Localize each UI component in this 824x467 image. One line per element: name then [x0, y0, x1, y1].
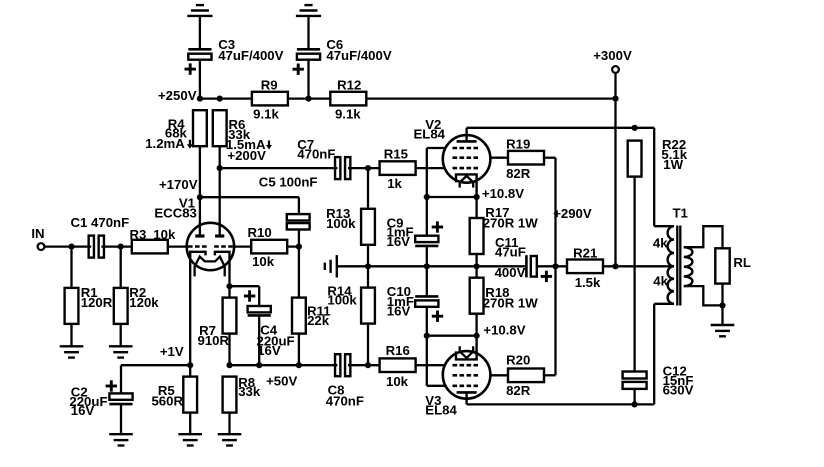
wire node to ground: [721, 305, 723, 325]
label C8: [326, 383, 364, 409]
wire 50V line: [230, 364, 338, 366]
label V2: [413, 117, 445, 141]
svg-text:1W: 1W: [663, 157, 683, 172]
wire R4 to V1 left anode: [199, 146, 201, 235]
svg-text:120k: 120k: [129, 295, 159, 310]
V3 g3 wire: [427, 336, 446, 386]
svg-text:910R: 910R: [198, 333, 230, 348]
wire C8 to R16: [348, 364, 380, 366]
node R10/R11/C5: [296, 244, 302, 250]
node V3 g3/C10: [424, 333, 430, 339]
V3 g1 dashes: [453, 364, 479, 367]
svg-text:R20: R20: [506, 352, 530, 367]
wire R20 to +290V line: [544, 374, 556, 376]
label R1: [81, 285, 113, 310]
wire midline to C10: [426, 266, 428, 296]
label IN: [31, 226, 44, 241]
V2 g2 dashes: [453, 156, 479, 159]
node rail/C6: [305, 96, 311, 102]
node +290V: [552, 263, 558, 269]
wire V1 grid2 to R10: [234, 245, 252, 247]
wire node2 to R11: [298, 247, 300, 298]
wire midline to R18: [475, 266, 477, 277]
wire V2 k-line to C9: [426, 197, 428, 236]
V3 g2 dashes: [453, 374, 479, 377]
node V2 g3/C9: [424, 194, 430, 200]
wire C4 to 50V line: [258, 315, 260, 365]
node rail/R4: [197, 96, 203, 102]
chassis ground midline: [325, 255, 337, 277]
svg-text:IN: IN: [31, 226, 44, 241]
label R8: [238, 375, 261, 399]
label R22: [661, 137, 687, 172]
label R9: [253, 77, 279, 121]
capacitor C9: [415, 236, 438, 246]
label C2: [69, 385, 107, 418]
wire V2 cathode to R17: [475, 197, 477, 218]
svg-text:C5 100nF: C5 100nF: [259, 175, 318, 190]
V3 g3 dashes: [453, 384, 479, 387]
T1 secondary top wire: [684, 226, 723, 248]
label R12: [335, 77, 361, 121]
wire V3 anode line: [467, 304, 655, 405]
wire C1 to R3: [101, 245, 131, 247]
svg-text:33k: 33k: [238, 384, 261, 399]
V2 g3 dashes: [453, 147, 479, 150]
svg-text:560R: 560R: [151, 393, 183, 408]
label C5: [259, 175, 318, 190]
resistor R7: [223, 298, 237, 334]
label R2: [129, 285, 159, 310]
T1 secondary bottom wire: [684, 286, 723, 305]
svg-text:1k: 1k: [387, 176, 402, 191]
node C9/C10 midline: [424, 263, 430, 269]
node C8/R14: [365, 362, 371, 368]
capacitor C3: [188, 49, 211, 59]
ground R8: [218, 434, 242, 445]
node RL/secondary: [719, 302, 725, 308]
svg-text:R15: R15: [384, 147, 408, 162]
arrow R4 current: [187, 140, 193, 149]
wire ground to C6: [307, 16, 309, 49]
T1 primary winding: [654, 226, 674, 304]
wire +170V node to C5: [200, 197, 299, 214]
wire RL to ground node: [721, 284, 723, 306]
label R17: [483, 205, 539, 231]
svg-text:4k: 4k: [653, 236, 668, 251]
svg-text:+1V: +1V: [160, 344, 184, 359]
label R11: [307, 303, 330, 328]
resistor R11: [292, 298, 306, 334]
resistor R13: [361, 209, 375, 245]
wire R22 to C12: [633, 177, 635, 372]
svg-text:+290V: +290V: [553, 206, 592, 221]
plus sign C10: [432, 311, 443, 322]
wire R2 down: [120, 247, 122, 288]
svg-text:270R 1W: 270R 1W: [483, 296, 539, 311]
wire V2 g2 to R19: [490, 157, 508, 159]
svg-text:R21: R21: [573, 246, 597, 261]
svg-text:47uF/400V: 47uF/400V: [218, 48, 283, 63]
svg-text:ECC83: ECC83: [154, 206, 197, 221]
svg-text:+50V: +50V: [266, 374, 297, 389]
label C11: [495, 235, 526, 280]
wire R2 to ground: [120, 324, 122, 346]
svg-text:400V: 400V: [495, 265, 526, 280]
wire R13 to midline: [367, 245, 369, 266]
label R6: [226, 117, 266, 163]
wire C7 to R15: [348, 167, 380, 169]
wire R7 to 50V line: [228, 334, 230, 366]
resistor R5: [183, 377, 197, 413]
ground (inverted) above C6: [296, 5, 321, 16]
plus sign C3: [185, 63, 196, 74]
ground RL: [711, 325, 735, 336]
node cathode/C4/R7: [226, 283, 232, 289]
node R17/R18 midline: [474, 263, 480, 269]
resistor R22: [628, 141, 642, 177]
V3 anode: [457, 392, 477, 404]
svg-text:C1 470nF: C1 470nF: [71, 215, 130, 230]
wire C9 to midline: [426, 246, 428, 266]
wire rail R12 to +300V column: [366, 97, 615, 99]
svg-text:+200V: +200V: [227, 148, 266, 163]
label R13: [326, 206, 356, 231]
terminal IN: [38, 243, 45, 250]
wire rail R9-R12: [288, 97, 330, 99]
label C7: [297, 137, 335, 162]
label V1: [154, 195, 197, 220]
label R7: [198, 323, 230, 348]
svg-text:470nF: 470nF: [326, 393, 364, 408]
resistor R8: [223, 377, 237, 413]
wire R6node to C7: [220, 167, 338, 169]
wire R5 to ground: [189, 413, 191, 435]
svg-text:+10.8V: +10.8V: [483, 323, 525, 338]
wire IN to C1: [44, 245, 91, 247]
wire rail R4node-R9: [200, 97, 252, 99]
label R20: [506, 352, 531, 398]
label R21: [573, 246, 601, 291]
svg-text:120R: 120R: [81, 295, 113, 310]
terminal +300V: [612, 66, 619, 73]
wire C2 to ground: [120, 404, 122, 434]
svg-text:R3: R3: [130, 227, 147, 242]
label +10.8V top: [482, 186, 524, 201]
resistor R20: [508, 369, 544, 383]
wire V2 k-line: [427, 196, 477, 198]
wire +1V to R5: [189, 365, 191, 376]
label R4: [145, 117, 187, 152]
label +1V: [160, 344, 184, 359]
svg-text:9.1k: 9.1k: [253, 107, 279, 122]
capacitor C7: [335, 157, 350, 179]
wire R11 to 50V line: [298, 334, 300, 366]
wire midline to C11: [524, 265, 527, 267]
wire C11 to R21 node: [537, 265, 567, 267]
capacitor C5: [287, 214, 310, 229]
wire R19 to +290V line: [544, 158, 556, 267]
node +1V: [187, 362, 193, 368]
label R15: [384, 147, 408, 191]
node +300V/rail: [612, 96, 618, 102]
wire R3 to V1 grid: [168, 245, 187, 247]
wire ground to C3: [199, 16, 201, 49]
svg-text:100k: 100k: [327, 293, 357, 308]
svg-text:1.2mA: 1.2mA: [145, 136, 185, 151]
T1 secondary winding: [684, 247, 693, 286]
svg-text:T1: T1: [673, 205, 688, 220]
label R19: [506, 137, 531, 181]
V1 left cathode: [190, 252, 205, 273]
label R10: [248, 225, 275, 269]
label R5: [151, 383, 183, 408]
svg-text:R19: R19: [506, 137, 530, 152]
svg-text:EL84: EL84: [425, 403, 457, 418]
resistor R19: [508, 151, 544, 165]
resistor R4: [193, 110, 207, 146]
svg-text:270R 1W: 270R 1W: [483, 216, 539, 231]
resistor R12: [330, 92, 366, 106]
node R21/+300V: [612, 263, 618, 269]
node R13/R14: [365, 263, 371, 269]
svg-text:R10: R10: [248, 225, 272, 240]
wire V2 anode line: [467, 128, 655, 226]
label 4k lower: [653, 274, 668, 289]
plus sign C6: [293, 64, 304, 75]
svg-text:R12: R12: [337, 77, 361, 92]
resistor R9: [252, 92, 288, 106]
plus sign C4: [244, 290, 255, 301]
V2 cathode: [456, 174, 477, 197]
svg-text:16V: 16V: [387, 234, 411, 249]
node anode/C12: [632, 401, 638, 407]
node R7/R8: [226, 362, 232, 368]
wire R10 to node2: [287, 245, 299, 247]
wire V3 k-line: [427, 335, 477, 337]
label +250V: [158, 88, 197, 103]
capacitor C1: [89, 236, 104, 258]
resistor R1: [65, 288, 79, 324]
svg-text:RL: RL: [733, 255, 751, 270]
svg-text:630V: 630V: [663, 382, 694, 397]
resistor R14: [361, 288, 375, 324]
svg-text:10k: 10k: [252, 254, 275, 269]
V2 g3 wire: [427, 148, 446, 197]
resistor R3: [132, 240, 168, 254]
svg-text:+300V: +300V: [593, 48, 632, 63]
node R2: [118, 244, 124, 250]
svg-text:82R: 82R: [506, 166, 531, 181]
V1 right cathode: [215, 252, 230, 273]
label +50V: [266, 374, 297, 389]
ground R2: [109, 346, 133, 357]
node R4/C5 line (+170V): [197, 194, 203, 200]
wire R21 to CT: [603, 265, 674, 267]
svg-text:16V: 16V: [387, 304, 411, 319]
capacitor C6: [297, 49, 320, 59]
label +300V: [593, 48, 632, 63]
capacitor C2: [109, 393, 132, 404]
label C6: [326, 37, 391, 63]
wire V1 left cathode down: [189, 273, 191, 365]
label C1: [71, 215, 130, 230]
node C7/R13: [365, 165, 371, 171]
svg-text:+170V: +170V: [159, 177, 198, 192]
triode V1 envelope: [187, 223, 234, 270]
resistor R16: [380, 358, 416, 372]
wire R17 to midline: [475, 254, 477, 266]
resistor R21: [567, 260, 603, 274]
capacitor C12: [623, 372, 647, 389]
label +170V: [159, 177, 198, 192]
svg-text:R16: R16: [386, 343, 410, 358]
resistor R15: [380, 161, 416, 175]
svg-text:R9: R9: [261, 77, 278, 92]
wire R1 to ground: [70, 324, 72, 346]
label R3: [130, 227, 176, 242]
label +290V: [553, 206, 592, 221]
svg-text:1.5k: 1.5k: [575, 275, 601, 290]
V2 g1 dashes: [453, 167, 479, 170]
resistor R17: [470, 218, 484, 254]
label R14: [327, 283, 357, 307]
svg-text:100k: 100k: [326, 216, 356, 231]
label C10: [387, 284, 414, 319]
capacitor C4: [248, 306, 271, 315]
V1 right anode: [215, 223, 224, 236]
label C3: [218, 37, 283, 63]
svg-text:10k: 10k: [386, 374, 409, 389]
wire C7 node to R13: [367, 168, 369, 209]
label C4: [257, 322, 295, 357]
plus sign C11: [541, 271, 552, 282]
wire +300V down: [614, 73, 616, 266]
svg-text:EL84: EL84: [413, 126, 445, 141]
ground R5: [178, 434, 202, 445]
wire V1 right cathode down: [228, 273, 230, 298]
svg-text:9.1k: 9.1k: [335, 107, 361, 122]
pentode V3 envelope: [443, 351, 491, 399]
V1 right grid: [214, 245, 233, 248]
svg-text:47uF: 47uF: [495, 245, 526, 260]
V1 left anode: [195, 223, 204, 236]
label C12: [663, 363, 694, 397]
svg-text:22k: 22k: [307, 313, 330, 328]
label R16: [386, 343, 410, 389]
wire C6 to rail: [307, 60, 309, 98]
wire R6 to V1 right anode: [219, 146, 221, 235]
svg-text:+10.8V: +10.8V: [482, 186, 524, 201]
label T1: [673, 205, 688, 220]
label RL: [733, 255, 751, 270]
plus sign C2: [106, 380, 117, 391]
wire C10 to V3 k-line: [426, 307, 428, 336]
resistor RL: [715, 248, 729, 283]
wire C12 to anode line: [633, 389, 635, 405]
V1 left grid: [188, 245, 207, 248]
V1 heater: [195, 257, 225, 277]
svg-text:+250V: +250V: [158, 88, 197, 103]
svg-text:10k: 10k: [153, 227, 176, 242]
capacitor C10 (hollow bottom): [415, 296, 438, 306]
ground C2: [109, 434, 133, 445]
svg-text:470nF: 470nF: [297, 146, 335, 161]
node anode/R22: [632, 125, 638, 131]
node V2 cathode/R17: [474, 194, 480, 200]
node rail/R6: [217, 96, 223, 102]
label C9: [387, 215, 414, 249]
capacitor C11: [526, 255, 536, 277]
wire R15 to V2 g1: [416, 167, 445, 169]
arrow R6 current: [266, 141, 272, 150]
wire midline: [338, 265, 525, 267]
wire R14 to 50V line: [367, 324, 369, 366]
wire +290V line down: [554, 266, 556, 375]
node R1: [68, 244, 74, 250]
node C4/50V: [256, 362, 262, 368]
label R18: [483, 285, 539, 311]
svg-text:47uF/400V: 47uF/400V: [326, 48, 391, 63]
wire C3 to rail: [199, 60, 201, 98]
wire R18 to V3 k-line: [475, 314, 477, 336]
label 4k upper: [653, 236, 668, 251]
wire midline to R14: [367, 266, 369, 287]
wire V3 g2 to R20: [490, 374, 508, 376]
wire R1 down: [70, 247, 72, 288]
T1 core: [677, 226, 680, 306]
capacitor C8: [335, 354, 350, 376]
svg-text:16V: 16V: [71, 403, 95, 418]
resistor R6: [213, 110, 227, 146]
resistor R18: [470, 278, 484, 314]
node R6/C7 line: [217, 165, 223, 171]
node R11/50V: [296, 362, 302, 368]
resistor R10: [251, 240, 287, 254]
label V3: [425, 393, 457, 418]
V2 anode: [457, 128, 477, 142]
pentode V2 envelope: [443, 135, 491, 183]
wire +1V to C2: [121, 365, 190, 393]
wire C5 to R10 node: [298, 230, 300, 247]
wire R16 to V3 g1: [416, 364, 445, 366]
label +10.8V bottom: [483, 323, 525, 338]
ground (inverted) above C3: [187, 5, 212, 16]
svg-text:82R: 82R: [506, 383, 531, 398]
wire node to C4: [230, 286, 260, 306]
resistor R2: [114, 288, 128, 324]
ground R1: [60, 346, 84, 357]
node V3 cathode/R18: [474, 333, 480, 339]
V3 heater: [460, 346, 474, 358]
V3 cathode: [456, 336, 477, 360]
plus sign C9: [432, 221, 443, 232]
wire R8 to ground: [228, 413, 230, 435]
V2 heater: [460, 176, 474, 188]
svg-text:16V: 16V: [257, 343, 281, 358]
svg-text:4k: 4k: [653, 274, 668, 289]
